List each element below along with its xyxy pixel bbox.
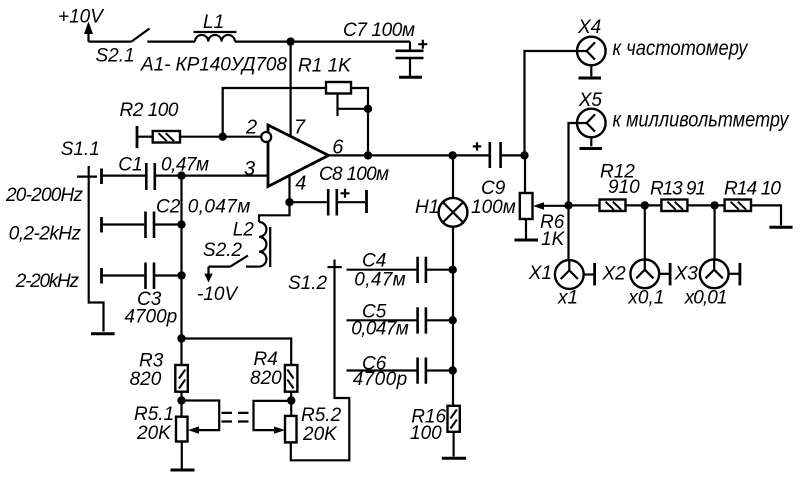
svg-text:0,047м: 0,047м bbox=[188, 196, 251, 217]
svg-text:6: 6 bbox=[332, 137, 344, 159]
svg-text:C7 100м: C7 100м bbox=[343, 20, 415, 41]
svg-text:C2: C2 bbox=[156, 196, 181, 217]
svg-text:820: 820 bbox=[250, 368, 282, 389]
svg-text:2-20kHz: 2-20kHz bbox=[15, 271, 80, 292]
svg-text:1K: 1K bbox=[541, 229, 566, 250]
svg-text:C9: C9 bbox=[481, 178, 506, 199]
svg-text:S1.2: S1.2 bbox=[288, 273, 328, 294]
svg-text:100м: 100м bbox=[471, 197, 516, 218]
svg-text:L1: L1 bbox=[203, 12, 224, 33]
svg-text:H1: H1 bbox=[415, 197, 439, 218]
svg-text:к частотомеру: к частотомеру bbox=[613, 36, 749, 60]
svg-text:R5.2: R5.2 bbox=[301, 405, 342, 426]
svg-text:L2: L2 bbox=[233, 220, 255, 241]
svg-text:20K: 20K bbox=[136, 423, 172, 444]
svg-text:3: 3 bbox=[244, 158, 255, 180]
svg-text:R14 10: R14 10 bbox=[724, 179, 781, 200]
svg-text:+10V: +10V bbox=[58, 7, 105, 28]
svg-text:R5.1: R5.1 bbox=[134, 404, 174, 425]
svg-text:7: 7 bbox=[294, 117, 306, 139]
svg-text:X2: X2 bbox=[602, 263, 627, 284]
svg-text:2: 2 bbox=[245, 117, 257, 139]
svg-text:4: 4 bbox=[295, 173, 306, 195]
svg-text:910: 910 bbox=[608, 177, 640, 198]
svg-text:S2.1: S2.1 bbox=[96, 46, 135, 67]
svg-text:0,2-2kHz: 0,2-2kHz bbox=[9, 224, 82, 245]
svg-text:4700p: 4700p bbox=[353, 369, 408, 390]
svg-text:20K: 20K bbox=[302, 424, 338, 445]
svg-text:R13 91: R13 91 bbox=[650, 179, 706, 200]
svg-text:S1.1: S1.1 bbox=[61, 139, 100, 160]
svg-text:R4: R4 bbox=[254, 349, 278, 370]
svg-text:C8 100м: C8 100м bbox=[319, 164, 389, 185]
svg-text:к милливольтметру: к милливольтметру bbox=[613, 107, 790, 131]
svg-text:C1: C1 bbox=[118, 155, 142, 176]
svg-text:X3: X3 bbox=[674, 263, 699, 284]
svg-text:S2.2: S2.2 bbox=[203, 240, 243, 261]
svg-text:X5: X5 bbox=[578, 90, 603, 111]
svg-text:-10V: -10V bbox=[197, 284, 239, 305]
svg-text:x1: x1 bbox=[557, 287, 578, 308]
svg-text:4700p: 4700p bbox=[124, 307, 177, 328]
svg-text:x0,1: x0,1 bbox=[627, 287, 664, 308]
svg-text:x0,01: x0,01 bbox=[684, 287, 728, 308]
svg-text:100: 100 bbox=[410, 423, 442, 444]
svg-text:R1 1K: R1 1K bbox=[298, 56, 352, 77]
svg-text:C4: C4 bbox=[362, 251, 386, 272]
svg-text:X4: X4 bbox=[577, 17, 601, 38]
svg-text:R2 100: R2 100 bbox=[120, 100, 179, 121]
svg-text:X1: X1 bbox=[528, 263, 552, 284]
svg-text:A1- КР140УД708: A1- КР140УД708 bbox=[140, 55, 287, 76]
svg-text:20-200Hz: 20-200Hz bbox=[5, 185, 84, 206]
svg-text:0,047м: 0,047м bbox=[351, 319, 409, 340]
svg-text:0,47м: 0,47м bbox=[161, 155, 209, 176]
svg-text:0,47м: 0,47м bbox=[354, 270, 405, 291]
svg-text:820: 820 bbox=[130, 369, 162, 390]
